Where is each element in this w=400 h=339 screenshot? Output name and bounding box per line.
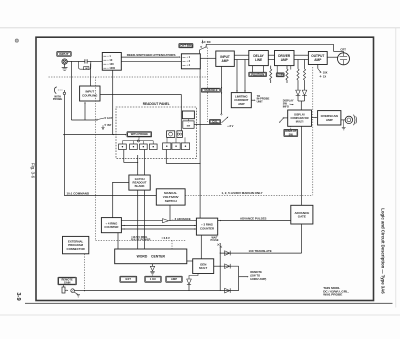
svg-text:AMP: AMP [281,58,288,62]
svg-text:DISPLAY: DISPLAY [294,113,305,117]
svg-text:CKT BIN: CKT BIN [180,44,191,48]
svg-text:PULSE POWER: PULSE POWER [131,238,151,242]
svg-text:÷ 4: ÷ 4 [187,63,191,67]
svg-text:GAIN: GAIN [277,73,284,77]
svg-text:DC: DC [207,40,211,44]
svg-text:PULSE: PULSE [210,239,218,242]
svg-text:COMPARATOR: COMPARATOR [291,116,309,120]
svg-text:MULTI: MULTI [296,119,304,123]
svg-text:INT: INT [107,123,112,127]
svg-text:÷ 1000: ÷ 1000 [107,66,115,70]
svg-text:÷ 1: ÷ 1 [187,55,191,59]
svg-text:AMP: AMP [171,277,177,281]
svg-text:Fig. 3-6: Fig. 3-6 [30,163,35,179]
svg-text:AMP: AMP [222,59,229,63]
svg-text:→ 2 ADVANCE: → 2 ADVANCE [171,217,191,221]
svg-text:UNIT: UNIT [257,99,264,103]
svg-text:MULT: MULT [199,266,207,270]
svg-text:1X: 1X [323,75,326,79]
svg-text:10:1 COMMAND: 10:1 COMMAND [67,192,90,196]
svg-text:AMP: AMP [326,118,333,122]
svg-text:10X TRANSLATE: 10X TRANSLATE [249,249,272,253]
svg-text:INPUT: INPUT [59,52,68,56]
svg-text:POSITION: POSITION [251,72,264,76]
svg-text:COUNTER: COUNTER [104,225,118,229]
svg-text:+ 8 V: + 8 V [227,124,233,128]
svg-text:READOUT PANEL: READOUT PANEL [143,102,170,106]
svg-text:WORD CENTER: WORD CENTER [137,255,166,259]
svg-text:SW: SW [289,132,294,136]
svg-text:3-9: 3-9 [15,292,21,300]
svg-text:GAIN: GAIN [64,281,71,285]
svg-text:CONNECTOR: CONNECTOR [67,247,85,251]
svg-text:1, 2, 5 mV/DIV MARGIN ONLY: 1, 2, 5 mV/DIV MARGIN ONLY [222,191,263,195]
svg-text:WITH PROBE: WITH PROBE [131,132,148,136]
svg-text:BLANK: BLANK [135,184,146,188]
svg-text:÷ 2: ÷ 2 [187,59,191,63]
svg-text:÷ 100: ÷ 100 [107,62,114,66]
svg-text:Logic and Circuit Description: Logic and Circuit Description — Type 3A6 [380,208,385,294]
svg-text:GATE: GATE [298,215,306,219]
svg-text:1M: 1M [85,68,88,70]
svg-text:10X: 10X [323,70,328,74]
svg-text:CAL: CAL [212,119,218,123]
svg-text:AMP: AMP [238,102,244,106]
svg-text:1 KC: 1 KC [150,277,156,281]
svg-text:EXT: EXT [107,116,113,120]
svg-text:≈ 6.8 V: ≈ 6.8 V [162,236,171,240]
svg-text:COUPLING: COUPLING [82,93,98,97]
svg-text:LINE: LINE [255,58,262,62]
svg-text:AMP: AMP [314,58,321,62]
svg-text:ADVANCE PULSES: ADVANCE PULSES [240,217,267,221]
svg-text:PROBE: PROBE [53,97,63,101]
svg-text:÷ 10: ÷ 10 [107,58,113,62]
svg-text:CRT: CRT [340,47,346,51]
svg-text:(SW TO: (SW TO [250,274,260,278]
svg-text:SWITCH: SWITCH [165,199,177,203]
svg-text:VARIABLE: VARIABLE [204,88,218,92]
svg-text:÷ 1: ÷ 1 [107,54,111,58]
svg-text:EXT: EXT [126,277,132,281]
svg-text:W/91 PROBE: W/91 PROBE [323,293,342,297]
svg-text:REED-SWITCHED ATTENUATORS: REED-SWITCHED ATTENUATORS [127,53,176,57]
svg-text:COUNTER: COUNTER [200,226,214,230]
svg-text:REMOTE: REMOTE [250,270,262,274]
svg-text:AC: AC [202,40,206,44]
svg-text:INFO: INFO [283,104,289,108]
svg-text:HORIZ AMP): HORIZ AMP) [250,277,266,281]
